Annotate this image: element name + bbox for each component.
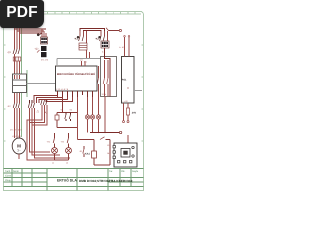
svg-text:Sayfa: Sayfa [132,170,139,173]
wire drops to Q1 [15,27,20,49]
svg-text:-Q1: -Q1 [7,51,12,54]
svg-text:Tarih: Tarih [5,170,11,173]
svg-text:a b: a b [80,59,83,62]
svg-text:2T1 4T2: 2T1 4T2 [41,59,48,62]
K2 feed wire [105,48,111,97]
indicator lamp H4 [90,115,94,119]
breaker actuator knob [37,34,40,37]
link wires U1 pins to contactors [34,96,73,104]
wire K1 to gray link [87,50,90,58]
svg-text:24V: 24V [132,112,137,115]
relay coil KA1 [92,151,97,158]
PE branch at terminal strip [26,70,28,97]
soft starter K2 drops [101,31,108,41]
branch H2 [66,133,72,160]
contactor block K0a [41,46,47,51]
start loop S1 [57,97,78,128]
drawing frame [4,12,144,191]
svg-text:ERTUĞ DLA: ERTUĞ DLA [57,178,77,182]
controller module U1 [56,66,98,91]
svg-text:13 14: 13 14 [102,93,107,96]
KA1 aux contact [100,137,105,140]
wire Q1 to X1 [15,54,20,79]
relay socket XS1 [113,135,137,167]
K1 actuator knob [77,36,79,38]
contactor K1 [79,36,84,41]
PDF badge [0,0,44,28]
title block [4,169,144,191]
svg-text:-H2: -H2 [61,141,65,144]
wire X1 to controller gray [57,58,101,60]
svg-text:-S2: -S2 [69,109,73,112]
indicator lamp H3 [85,115,89,119]
motor M1 [12,138,26,154]
svg-text:DMB DDMB DİSTRİBA KBERİ#304;ST: DMB DDMB DİSTRİBA KBERİ#304;STRDMB DİSTR… [79,179,133,183]
K2 actuator knob [98,36,100,38]
svg-text:Tar.: Tar. [109,170,113,173]
svg-text:3~: 3~ [17,149,21,153]
wire labels under Q2 [41,59,48,62]
svg-text:Norm: Norm [13,170,19,173]
timer contact [55,115,59,120]
svg-text:-Q2: -Q2 [35,48,40,51]
wire X1 to U1 module [27,83,56,85]
svg-text:2T1 4T2 6T3: 2T1 4T2 6T3 [10,129,22,132]
lamp wires from U1 [78,97,99,140]
svg-text:1 2 3 4 5 6 7 8: 1 2 3 4 5 6 7 8 [56,88,68,91]
contactor K1 drops [80,31,87,43]
terminal labels row [10,129,22,139]
branch bottom wire [55,159,69,161]
U1 bottom pin row [58,91,93,97]
fuse F4 [126,108,129,115]
svg-text:△: △ [37,109,40,113]
overload F3 [101,41,109,48]
wires KM1 to motor [15,108,20,138]
breaker Q2 drops [42,29,46,37]
aux contact K2.1 [103,60,104,97]
terminal strip X1 [13,74,27,93]
motor wiring group 1 [15,93,20,103]
aux contact K1.1 [97,66,98,97]
lamp return wires [88,97,106,133]
overload F2 [79,43,87,50]
motor ground lead [18,154,20,159]
control tap terminal X0 [109,30,120,32]
G1 top pins [125,37,130,57]
feeder bus segment 2 [80,29,105,37]
svg-text:-K2: -K2 [7,105,11,108]
three-phase supply bus L1 L2 L3 [15,29,47,33]
contactor KM3 star contacts [41,100,47,105]
relay interface box A1 [101,57,117,97]
indicator lamp H5 [96,115,100,119]
svg-text:L+ M: L+ M [119,46,124,49]
control bus 24V [90,132,119,134]
svg-text:MIKO DOĞRU YÜKSELTİCİ BKİ: MIKO DOĞRU YÜKSELTİCİ BKİ [57,72,96,76]
aux contact K1 [83,146,84,157]
soft starter K2 [100,36,105,41]
U1 top pins [82,61,86,66]
pushbutton S2 [65,113,71,122]
wire G1 to border [134,90,142,92]
svg-text:U1 V1 W1: U1 V1 W1 [12,135,22,138]
G1 dc output wires [124,103,129,121]
svg-text:KA1: KA1 [85,153,90,156]
svg-text:-H1: -H1 [47,141,51,144]
delta link wires [27,105,70,160]
relay KA1 coil loop [78,140,111,166]
svg-text:x1: x1 [52,162,55,165]
svg-text:- + PE: - + PE [123,100,129,103]
motor breaker Q2 [41,37,48,44]
main switch Q1 [13,49,20,54]
power supply G1 [122,57,135,104]
thermal element F1 [13,57,21,61]
contactor KM1 contacts [13,103,19,108]
svg-text:-S1: -S1 [60,109,64,112]
svg-text:-K1: -K1 [79,150,83,153]
contactor KM2 delta contacts [28,100,34,108]
svg-text:x2: x2 [66,162,69,165]
contactor block K0b [41,52,47,57]
PE green conductor [21,27,23,74]
branch H1 [52,133,58,160]
svg-text:Onay: Onay [5,179,12,182]
svg-text:Cizen: Cizen [5,175,12,178]
svg-text:Olc.: Olc. [121,170,126,173]
svg-text:PS1: PS1 [122,79,127,82]
aux contact K2.2 [107,60,108,97]
